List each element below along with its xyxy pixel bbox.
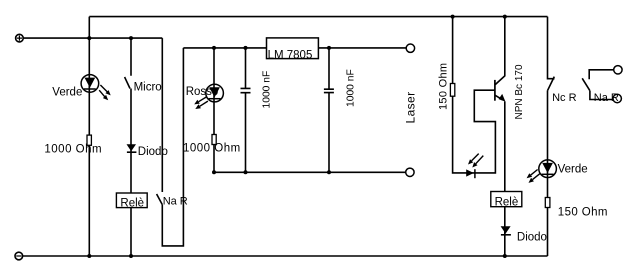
resistor R4 150 Ohm xyxy=(545,198,550,208)
svg-text:1000 Ohm: 1000 Ohm xyxy=(44,144,102,156)
wire Na R branch with U-turn up to laser subcircuit xyxy=(162,38,183,246)
svg-text:150 Ohm: 150 Ohm xyxy=(437,63,449,110)
wire Na R right top contact xyxy=(589,70,614,80)
relay coil Rele left xyxy=(116,193,147,210)
wire left vertical through Verde LED and R1 xyxy=(88,17,90,256)
node junction bottomrail-verde xyxy=(87,254,91,258)
wire 150 Ohm photodiode branch to transistor base xyxy=(453,17,496,173)
wire laser subcircuit top rail xyxy=(183,47,406,49)
node junction main-micro xyxy=(129,36,133,40)
wire emitter to relay xyxy=(504,102,506,257)
terminal Na R bottom xyxy=(613,94,621,102)
svg-text:Verde: Verde xyxy=(52,87,82,99)
node junction subrail-bottom-c1 xyxy=(244,170,248,174)
terminal laser bottom xyxy=(406,168,414,176)
wire Rosso LED branch xyxy=(213,48,215,172)
node junction main-verde xyxy=(87,36,91,40)
svg-text:1000 Ohm: 1000 Ohm xyxy=(183,143,241,155)
wire micro relay branch xyxy=(130,38,132,256)
resistor R2 1000 Ohm xyxy=(212,135,216,145)
node junction subrail-c1 xyxy=(244,46,248,50)
terminal plus xyxy=(16,34,24,42)
svg-text:1000 nF: 1000 nF xyxy=(262,71,273,109)
svg-text:Na R: Na R xyxy=(163,196,188,208)
LED D1 Verde left xyxy=(81,75,111,101)
wire capacitor C1 branch xyxy=(245,48,247,172)
wire top rail xyxy=(89,16,547,18)
resistor R3 150 Ohm xyxy=(450,84,454,97)
capacitor C2 plates xyxy=(324,89,334,92)
wire Na R right bottom contact xyxy=(590,91,613,100)
svg-text:Verde: Verde xyxy=(558,164,588,176)
transistor Q1 emitter xyxy=(495,95,502,100)
svg-text:Na R: Na R xyxy=(594,92,619,104)
resistor R1 1000 Ohm xyxy=(87,135,91,145)
node junction subrail-bottom-c2 xyxy=(327,170,331,174)
wire bottom rail xyxy=(23,255,548,257)
node junction subrail-rosso xyxy=(212,46,216,50)
switch Na R right lever xyxy=(582,78,590,90)
svg-text:Nc R: Nc R xyxy=(552,92,577,104)
svg-text:LM 7805: LM 7805 xyxy=(268,49,313,61)
node junction bottomrail-diodo xyxy=(503,254,507,258)
terminal minus xyxy=(15,252,23,260)
wire collector branch xyxy=(495,17,505,85)
switch Nc R lever xyxy=(547,77,554,91)
diode D2 Diodo left xyxy=(127,144,137,152)
node junction bottomrail-rele xyxy=(129,254,133,258)
node junction toprail-150ohm xyxy=(451,15,455,19)
node junction toprail-collector xyxy=(503,15,507,19)
LED D6 Verde right xyxy=(527,160,557,183)
svg-text:Diodo: Diodo xyxy=(138,146,168,158)
photodiode D4 xyxy=(466,154,483,179)
svg-text:NPN Bc 170: NPN Bc 170 xyxy=(514,64,525,119)
switch Na R lever xyxy=(157,194,163,205)
node junction subrail-c2 xyxy=(327,46,331,50)
terminal laser top xyxy=(406,44,414,52)
switch Micro lever xyxy=(125,77,130,89)
svg-text:Relè: Relè xyxy=(120,198,144,210)
regulator U1 LM 7805 xyxy=(267,38,319,62)
wire main plus rail xyxy=(23,37,162,39)
capacitor C1 plates xyxy=(241,88,251,92)
diode D5 Diodo right xyxy=(501,226,511,235)
svg-text:1000 nF: 1000 nF xyxy=(346,69,357,107)
node junction subrail-bottom-rosso xyxy=(212,170,216,174)
svg-text:Micro: Micro xyxy=(134,81,162,93)
terminal Na R top xyxy=(614,66,622,74)
wire Nc R branch right xyxy=(548,17,555,256)
svg-text:Rosso: Rosso xyxy=(186,86,219,98)
LED D3 Rosso xyxy=(194,84,223,109)
wire capacitor C2 branch xyxy=(328,48,330,172)
transistor Q1 base bar xyxy=(494,80,496,101)
wire laser subcircuit bottom rail xyxy=(214,171,406,173)
svg-text:Diodo: Diodo xyxy=(517,231,547,243)
svg-text:Relè: Relè xyxy=(495,196,519,208)
relay coil Rele right xyxy=(491,192,522,209)
svg-text:Laser: Laser xyxy=(404,91,418,123)
svg-text:150 Ohm: 150 Ohm xyxy=(558,206,608,218)
